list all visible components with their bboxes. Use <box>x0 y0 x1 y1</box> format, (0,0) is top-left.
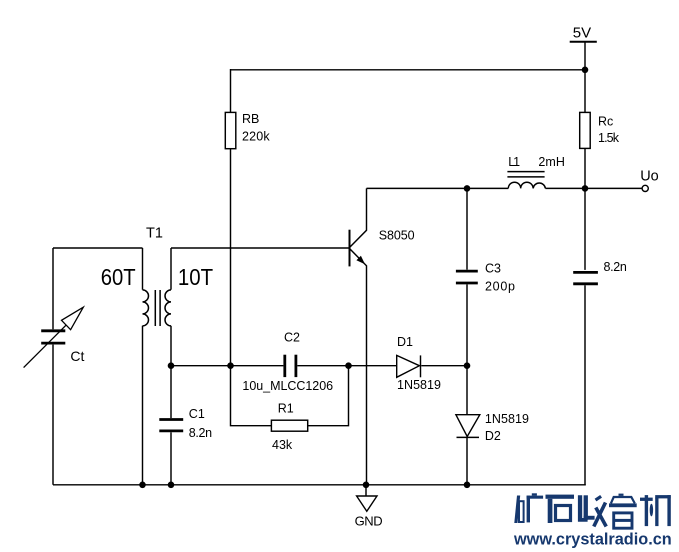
junction node bottom D2 <box>464 482 471 489</box>
svg-text:T1: T1 <box>146 225 163 241</box>
wire C1 to bottom rail <box>170 432 172 485</box>
transformer T1 left winding wire lower <box>142 326 144 485</box>
junction node top right <box>582 67 589 74</box>
wire D1 node to D2 <box>466 366 468 415</box>
svg-text:8.2n: 8.2n <box>604 260 627 274</box>
capacitor C3 plates <box>456 271 478 283</box>
transistor Q1 collector <box>350 188 367 247</box>
capacitor C1 plates <box>159 420 183 431</box>
wire top rail collector to L1 <box>367 187 509 189</box>
junction node D1-C3 <box>464 362 471 369</box>
svg-text:60T: 60T <box>101 264 136 290</box>
svg-text:GND: GND <box>355 514 383 529</box>
svg-text:R1: R1 <box>278 402 294 416</box>
wire D2 to bottom rail <box>466 437 468 484</box>
junction node R1-D1 <box>345 362 352 369</box>
wire bottom rail <box>53 484 586 486</box>
variable capacitor Ct arrow shaft <box>24 325 66 367</box>
capacitor 8.2n right plates <box>573 272 598 283</box>
svg-text:Uo: Uo <box>640 168 659 184</box>
wire right column output node to 8.2n cap <box>584 188 586 270</box>
svg-text:43k: 43k <box>272 438 293 452</box>
svg-text:C2: C2 <box>284 331 300 345</box>
junction node RB-C2 <box>227 362 234 369</box>
watermark char 收 <box>578 495 606 527</box>
svg-text:C1: C1 <box>189 407 205 421</box>
diode D1 cathode bar <box>420 355 422 377</box>
wire RB bottom lead down to C2 node <box>230 149 232 366</box>
svg-text:1N5819: 1N5819 <box>397 378 441 392</box>
variable capacitor Ct arrow head <box>62 307 84 330</box>
svg-text:5V: 5V <box>573 24 591 41</box>
watermark char 石 <box>546 495 575 523</box>
watermark char 音 <box>609 494 637 529</box>
resistor Rc <box>580 112 591 148</box>
wire left box top <box>53 247 143 249</box>
wire C3 column top <box>466 188 468 269</box>
svg-text:Rc: Rc <box>598 115 613 129</box>
wire left box left lower <box>52 345 54 485</box>
svg-text:S8050: S8050 <box>379 229 415 243</box>
ground symbol triangle <box>357 496 377 511</box>
transformer T1 left winding arcs <box>143 290 149 326</box>
watermark char 机 <box>640 495 671 526</box>
transformer T1 core lines <box>154 290 156 326</box>
terminal Uo open circle <box>642 185 648 191</box>
wire C2 to D1 <box>297 365 396 367</box>
ground stub <box>365 485 367 496</box>
diode D2 triangle <box>456 415 480 437</box>
transformer T1 right winding wire upper <box>170 248 172 290</box>
capacitor Ct plates <box>41 331 65 343</box>
svg-text:D2: D2 <box>485 429 501 443</box>
junction node Rc bottom <box>582 185 589 192</box>
svg-text:8.2n: 8.2n <box>189 426 212 440</box>
wire C2 line left <box>171 365 283 367</box>
svg-text:220k: 220k <box>242 129 270 143</box>
wire R1 right riser <box>308 366 349 426</box>
wire right winding to C1 <box>170 326 172 418</box>
svg-text:C3: C3 <box>485 262 501 276</box>
wire D1 to C3 column <box>421 365 467 367</box>
wire right column 8.2n cap to bottom rail <box>584 285 586 485</box>
capacitor C2 plates <box>285 355 296 377</box>
wire 5V column to Rc <box>584 42 586 113</box>
transistor Q1 base bar <box>349 230 351 267</box>
wire left box left upper (to Ct) <box>52 248 54 329</box>
svg-text:RB: RB <box>242 112 259 126</box>
junction node L1 left <box>464 185 471 192</box>
wire Rc bottom to output node <box>584 148 586 188</box>
junction node bottom C1 <box>168 482 175 489</box>
resistor R1 <box>271 420 307 431</box>
wire L1 to Uo terminal <box>545 187 642 189</box>
junction node bottom emitter/GND <box>363 482 370 489</box>
junction node bottom left winding <box>139 482 146 489</box>
svg-text:L1: L1 <box>508 155 520 169</box>
diode D2 cathode bar <box>457 436 480 438</box>
svg-text:D1: D1 <box>397 335 413 349</box>
inductor L1 arcs <box>508 182 545 188</box>
diode D1 triangle <box>397 355 420 377</box>
inductor L1 core lines <box>507 171 544 173</box>
svg-text:1N5819: 1N5819 <box>485 412 529 426</box>
transformer T1 right winding arcs <box>165 290 171 326</box>
power 5V bar <box>570 41 597 43</box>
svg-text:1.5k: 1.5k <box>598 131 620 145</box>
wire C3 to D1 node <box>466 284 468 365</box>
svg-text:www.crystalradio.cn: www.crystalradio.cn <box>513 531 672 549</box>
junction node winding-C2 <box>168 362 175 369</box>
wire RB top lead <box>230 69 232 112</box>
transistor Q1 emitter arrow <box>356 256 365 265</box>
watermark char 矿 <box>514 493 543 523</box>
resistor RB <box>225 112 236 148</box>
wire base rail from transformer to transistor <box>171 247 350 249</box>
transformer T1 left winding wire upper <box>142 248 144 290</box>
svg-text:2mH: 2mH <box>538 155 565 169</box>
svg-text:10T: 10T <box>178 264 213 290</box>
svg-text:Ct: Ct <box>70 348 84 364</box>
wire RB column down to R1 left <box>231 366 272 426</box>
transistor Q1 emitter <box>350 249 367 485</box>
svg-text:10u_MLCC1206: 10u_MLCC1206 <box>242 379 333 393</box>
wire top rail RB to 5V column <box>231 69 586 71</box>
svg-text:200p: 200p <box>485 280 515 294</box>
